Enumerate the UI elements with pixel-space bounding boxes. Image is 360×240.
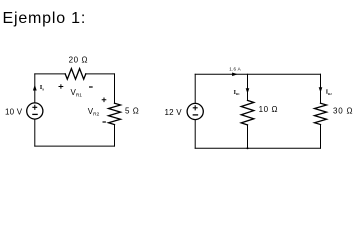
wire left lower [34, 120, 36, 146]
current arrow IR1 (down) [246, 88, 250, 93]
current arrow Is (up) [33, 85, 37, 91]
wire left upper [34, 74, 36, 102]
plus mark of VR2 [102, 98, 107, 103]
voltage source V1 circle [27, 103, 43, 119]
svg-text:12 V: 12 V [165, 108, 183, 117]
svg-text:Ejemplo 1:: Ejemplo 1: [3, 10, 87, 27]
svg-text:5 Ω: 5 Ω [125, 107, 139, 116]
wire middle branch upper [247, 74, 249, 100]
resistor R2 5 ohm zigzag [109, 103, 121, 124]
plus sign inside source V1 [33, 105, 37, 109]
wire bottom [195, 147, 320, 149]
svg-text:20 Ω: 20 Ω [69, 55, 89, 64]
svg-text:10 Ω: 10 Ω [259, 105, 279, 114]
wire right lower [114, 125, 116, 147]
current arrow IR2 (down) [319, 87, 323, 92]
wire right branch lower [320, 125, 322, 149]
wire bottom [35, 145, 115, 147]
plus mark of VR1 [59, 84, 64, 89]
current arrow 1.6 A (right) on top wire [232, 73, 238, 77]
minus sign inside source V2 [193, 114, 197, 116]
wire top [195, 73, 320, 75]
wire left upper [194, 74, 196, 103]
wire top-left segment [35, 73, 65, 75]
wire left lower [194, 120, 196, 148]
svg-text:1.6 A: 1.6 A [229, 67, 241, 72]
minus mark of VR2 [103, 121, 106, 123]
resistor R4 30 ohm zigzag [315, 103, 327, 124]
svg-text:10 V: 10 V [5, 108, 23, 117]
resistor R1 20 ohm zigzag [65, 69, 86, 80]
minus sign inside source V1 [33, 113, 37, 115]
wire right upper [114, 74, 116, 103]
minus mark of VR1 [89, 86, 93, 88]
voltage source V2 circle [187, 103, 203, 119]
resistor R3 10 ohm zigzag [241, 100, 254, 125]
wire middle branch lower [247, 125, 249, 148]
plus sign inside source V2 [193, 106, 197, 110]
svg-text:30 Ω: 30 Ω [333, 107, 353, 116]
wire right branch upper [320, 74, 322, 103]
wire top-right segment [86, 73, 115, 75]
junction dot bottom middle [247, 147, 249, 149]
